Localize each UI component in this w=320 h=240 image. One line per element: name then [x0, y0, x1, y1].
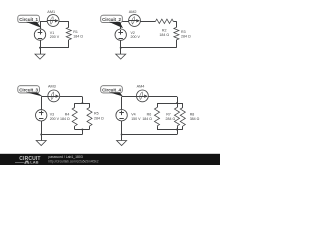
- svg-text:AM4: AM4: [137, 85, 145, 89]
- svg-text:R6: R6: [147, 112, 152, 116]
- svg-text:184 Ω: 184 Ω: [159, 33, 169, 37]
- svg-text:password / Lab1_1803: password / Lab1_1803: [48, 155, 82, 159]
- svg-text:200 V: 200 V: [131, 35, 141, 39]
- svg-text:AM1: AM1: [47, 10, 55, 14]
- svg-text:Circuit_4: Circuit_4: [102, 87, 121, 92]
- svg-text:AM2: AM2: [129, 10, 137, 14]
- svg-text:V4: V4: [131, 112, 135, 116]
- svg-text:284 Ω: 284 Ω: [94, 116, 104, 120]
- svg-text:284 Ω: 284 Ω: [166, 117, 176, 121]
- svg-text:200 V: 200 V: [50, 117, 60, 121]
- svg-text:Circuit_3: Circuit_3: [19, 87, 38, 92]
- svg-text:Circuit_1: Circuit_1: [19, 17, 38, 22]
- svg-text:AM3: AM3: [48, 85, 56, 89]
- svg-text:R4: R4: [65, 112, 70, 116]
- svg-text:200 V: 200 V: [50, 35, 60, 39]
- svg-text:http://circuitlab.com/c/2a5e5m: http://circuitlab.com/c/2a5e5m4t5k2: [48, 160, 98, 164]
- svg-text:LAB: LAB: [30, 160, 38, 165]
- svg-text:184 Ω: 184 Ω: [142, 117, 152, 121]
- svg-text:R3: R3: [181, 30, 186, 34]
- svg-text:150 V: 150 V: [131, 117, 141, 121]
- svg-text:R2: R2: [162, 29, 167, 33]
- svg-text:R7: R7: [166, 112, 171, 116]
- svg-text:V3: V3: [50, 112, 54, 116]
- svg-text:R8: R8: [190, 112, 195, 116]
- svg-text:184 Ω: 184 Ω: [73, 34, 83, 38]
- svg-text:R5: R5: [94, 112, 99, 116]
- svg-text:Circuit_2: Circuit_2: [102, 17, 121, 22]
- svg-text:284 Ω: 284 Ω: [181, 34, 191, 38]
- svg-text:384 Ω: 384 Ω: [190, 117, 200, 121]
- svg-text:R1: R1: [73, 30, 78, 34]
- svg-text:184 Ω: 184 Ω: [60, 117, 70, 121]
